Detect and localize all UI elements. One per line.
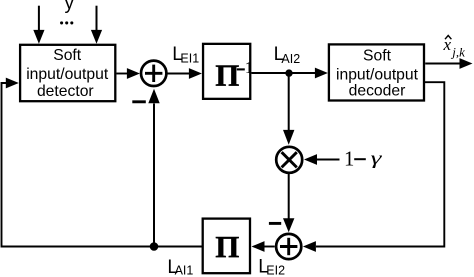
svg-text:detector: detector (37, 83, 94, 100)
svg-text:EI1: EI1 (180, 51, 199, 65)
svg-text:EI2: EI2 (266, 264, 285, 277)
svg-text:Π: Π (215, 229, 239, 264)
wire: 1-gamma coefficient into multiplier (304, 154, 340, 165)
wire: input arrow 1 into detector top (33, 6, 44, 44)
label L_AI2 (274, 44, 301, 66)
svg-text:Π: Π (215, 57, 239, 92)
adder A2 (summation node) (276, 234, 301, 259)
label 1-gamma (344, 148, 382, 170)
wire: multiplier down to adder A2 (283, 174, 294, 233)
label L_AI1 (167, 257, 193, 277)
wire: interleaver output feedback to detector input (2, 78, 203, 247)
node: junction on L_AI2 wire (285, 69, 292, 76)
label ellipsis between input arrows (60, 21, 73, 24)
minus sign at adder A2 upper input (269, 222, 281, 225)
wire: input arrow 2 into detector top (91, 6, 102, 44)
svg-text:y: y (65, 0, 75, 14)
wire: deinterleaver to decoder (252, 68, 328, 79)
wire: adder A2 to interleaver PI (252, 241, 275, 252)
node: junction on L_AI1 wire (150, 242, 159, 251)
block: deinterleaver PI^-1 (203, 44, 253, 99)
label L_EI2 (258, 256, 285, 277)
wire: junction up to adder A1 lower input (148, 89, 159, 247)
svg-text:input/output: input/output (26, 66, 109, 83)
wire: decoder hard output arrow (425, 58, 472, 69)
multiplier M1 (gain 1-gamma) (276, 147, 302, 173)
block: interleaver PI (203, 219, 250, 274)
svg-text:1: 1 (245, 58, 254, 77)
adder A1 (summation node) (141, 61, 166, 86)
wire: junction down to multiplier (283, 73, 294, 145)
block: soft input/output detector (20, 45, 115, 101)
svg-text:Soft: Soft (53, 47, 82, 64)
minus sign at adder A1 lower input (132, 100, 146, 103)
wire: decoder feedback right side down to adder A2 (303, 82, 444, 252)
svg-text:1: 1 (344, 148, 354, 170)
svg-text:input/output: input/output (336, 66, 419, 83)
wire: detector output to adder A1 (117, 68, 140, 79)
label xhat_j,k (decoded symbol estimate) (443, 35, 466, 59)
svg-text:decoder: decoder (349, 82, 406, 99)
svg-text:Soft: Soft (363, 47, 392, 64)
block: soft input/output decoder (329, 44, 424, 100)
svg-text:γ: γ (371, 149, 383, 169)
svg-text:AI2: AI2 (281, 52, 300, 66)
svg-text:AI1: AI1 (175, 264, 194, 277)
svg-text:j,k: j,k (450, 45, 465, 60)
label L_EI1 (172, 44, 199, 66)
wire: adder A1 to interleaver inverse (167, 68, 202, 79)
